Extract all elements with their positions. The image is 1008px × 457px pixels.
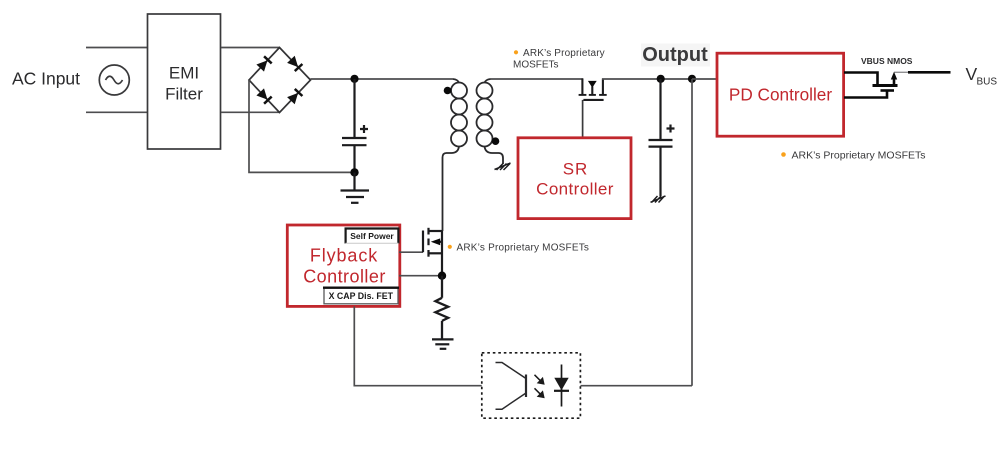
- label VBUS: [966, 64, 998, 88]
- wire flyback to opto: [354, 306, 482, 385]
- note ARK MOSFETs top: [513, 48, 605, 71]
- svg-text:ARK’s Proprietary MOSFETs: ARK’s Proprietary MOSFETs: [792, 150, 926, 162]
- diode D1 top-left: [256, 55, 272, 71]
- svg-text:Flyback: Flyback: [310, 246, 378, 266]
- diode D3 bottom-left: [256, 88, 272, 104]
- X CAP Dis FET sub-block: [323, 288, 399, 304]
- note ARK MOSFETs middle: [448, 242, 589, 253]
- ground primary: [341, 172, 370, 202]
- wire secondary to SR MOSFET: [491, 78, 584, 80]
- label Output: [641, 44, 710, 67]
- MOSFET Q2 body arrow: [588, 81, 597, 88]
- wire bridge output to transformer: [311, 78, 454, 80]
- svg-text:Self Power: Self Power: [350, 231, 394, 241]
- SR Controller block: [518, 138, 631, 219]
- wire AC bottom: [86, 111, 147, 113]
- Flyback Controller block: [287, 225, 400, 306]
- diode D2 top-right: [287, 56, 303, 72]
- wire flyback CS: [399, 275, 442, 277]
- light arrows: [535, 375, 544, 398]
- ground secondary (chassis): [495, 163, 511, 170]
- svg-text:AC Input: AC Input: [12, 69, 80, 89]
- wire SR gate: [582, 100, 584, 138]
- phototransistor: [496, 363, 527, 410]
- AC source V1: [99, 65, 129, 95]
- node bulk cap top: [350, 75, 358, 83]
- node output B: [688, 75, 696, 83]
- svg-text:PD Controller: PD Controller: [729, 85, 832, 105]
- svg-text:EMI: EMI: [169, 64, 199, 83]
- capacitor C2 output: [649, 79, 675, 196]
- svg-text:ARK’s Proprietary: ARK’s Proprietary: [523, 48, 605, 59]
- wire SR drain to output: [602, 78, 692, 80]
- LED D5: [554, 365, 569, 407]
- wire opto to output: [580, 385, 692, 387]
- MOSFET Q3 arrow: [891, 72, 897, 80]
- ground output (chassis): [651, 196, 666, 203]
- EMI filter block: [148, 14, 221, 149]
- resistor R1 sense: [435, 276, 448, 339]
- node bulk cap bottom: [350, 168, 358, 176]
- Self Power sub-block: [345, 228, 400, 244]
- svg-text:VBUS NMOS: VBUS NMOS: [861, 56, 913, 66]
- node output A: [657, 75, 665, 83]
- svg-text:Output: Output: [642, 44, 708, 66]
- svg-text:X CAP Dis. FET: X CAP Dis. FET: [329, 291, 394, 301]
- capacitor C1 bulk: [342, 79, 368, 172]
- node source junction: [438, 272, 446, 280]
- MOSFET Q3 VBUS NMOS: [844, 72, 951, 97]
- wire flyback gate: [399, 251, 423, 253]
- svg-text:Filter: Filter: [165, 85, 203, 104]
- MOSFET Q2 SR: [579, 79, 607, 100]
- note ARK MOSFETs right: [781, 150, 925, 162]
- svg-text:Controller: Controller: [303, 267, 386, 287]
- diode D4 bottom-right: [287, 88, 303, 104]
- MOSFET Q1 flyback: [423, 228, 442, 276]
- wire output feedback down: [691, 79, 693, 386]
- transformer T1: [443, 79, 504, 231]
- wire bridge negative rail: [249, 80, 355, 172]
- optocoupler U2: [482, 353, 581, 418]
- svg-text:SR: SR: [563, 160, 589, 179]
- ground resistor: [432, 339, 454, 348]
- MOSFET Q1 arrow: [431, 238, 440, 245]
- bridge rectifier BR1: [249, 48, 311, 113]
- svg-text:MOSFETs: MOSFETs: [513, 60, 559, 71]
- PD Controller block: [717, 53, 844, 136]
- wire EMI to bridge bottom: [221, 111, 280, 113]
- wire output to PD: [692, 78, 717, 80]
- node primary phase dot: [444, 87, 452, 95]
- svg-text:BUS: BUS: [977, 77, 998, 88]
- svg-text:Controller: Controller: [536, 180, 614, 199]
- wire EMI to bridge top: [221, 47, 280, 49]
- svg-text:ARK’s Proprietary MOSFETs: ARK’s Proprietary MOSFETs: [457, 242, 590, 253]
- wire AC top: [86, 47, 147, 49]
- node secondary phase dot: [492, 137, 500, 145]
